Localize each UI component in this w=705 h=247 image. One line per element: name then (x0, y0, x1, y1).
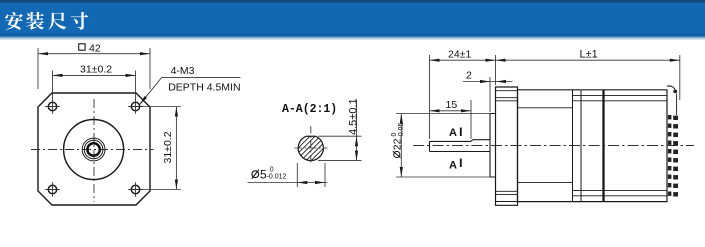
svg-text:L±1: L±1 (580, 48, 598, 60)
rear connector top tab (667, 86, 677, 115)
svg-text:2: 2 (466, 70, 472, 82)
side view centerline (413, 145, 694, 147)
dimension 2 extension line (489, 77, 491, 112)
header fade strip (0, 37, 705, 39)
header title char 寸 (71, 12, 89, 30)
front view horizontal centerline (31, 149, 154, 151)
mounting hole bottom-right (128, 182, 143, 197)
section crosshair horizontal (295, 147, 328, 149)
shaft outline (430, 140, 491, 152)
section crosshair vertical (310, 126, 312, 165)
shaft section hatching (268, 128, 354, 168)
svg-text:31±0.2: 31±0.2 (162, 131, 174, 163)
dimension 31 top extension lines (53, 71, 136, 101)
dimension 2 line (463, 80, 513, 83)
svg-text:A: A (449, 127, 457, 139)
section cut mark A lower (449, 159, 461, 172)
header main blue bar (0, 3, 705, 34)
dimension 15 extension line (470, 100, 472, 139)
svg-text:4.5±0.1: 4.5±0.1 (347, 98, 359, 135)
flange plate chamfer lines (496, 91, 518, 202)
bearing inner ring (84, 140, 103, 159)
svg-text:A-A(2:1): A-A(2:1) (282, 103, 337, 116)
svg-text:31±0.2: 31±0.2 (80, 64, 112, 76)
dimension 31 top line (53, 74, 136, 77)
dimension dia22 extension lines (396, 114, 490, 178)
4-M3 leader line (140, 77, 241, 104)
svg-text:15: 15 (446, 99, 458, 111)
svg-text:42: 42 (89, 43, 101, 55)
svg-text:-0.012: -0.012 (267, 174, 287, 181)
rear connector pin teeth (668, 115, 678, 197)
dimension square-42 line (38, 52, 150, 55)
mounting hole top-left (45, 99, 60, 114)
front view flange outline (38, 93, 150, 205)
section cut mark A upper (449, 127, 461, 139)
pilot boss side profile (490, 114, 496, 178)
shaft section D outline (298, 136, 323, 160)
header bar (0, 0, 705, 40)
header top navy strip (0, 0, 705, 3)
flange plate block (496, 87, 518, 205)
bearing outer ring (82, 138, 105, 161)
stator stack inner lines (518, 108, 573, 183)
dimension 24 line (430, 59, 496, 62)
dimension 31 right extension lines (141, 107, 181, 190)
header title char 安 (5, 12, 23, 30)
stator stack right edge (572, 90, 574, 202)
svg-text:A: A (449, 159, 457, 171)
svg-text:-0.05: -0.05 (398, 122, 405, 138)
dimension square-42 extension lines (38, 48, 150, 89)
motor body outline (518, 90, 668, 202)
svg-text:DEPTH 4.5MIN: DEPTH 4.5MIN (168, 81, 240, 93)
svg-text:4-M3: 4-M3 (171, 65, 195, 77)
dimension dia22 text (rotated) (391, 122, 405, 157)
pilot boss circle (64, 120, 124, 180)
rear cap joint thick line (602, 90, 604, 202)
mounting hole top-right (128, 99, 143, 114)
dimension 24 and L extension lines (430, 55, 680, 139)
header title char 装 (26, 12, 44, 30)
dimension 31 right line (175, 107, 178, 190)
header bottom darker strip (0, 34, 705, 37)
rear housing left edge (580, 90, 582, 202)
dimension 4.5 line (355, 100, 358, 161)
svg-text:0: 0 (270, 166, 274, 173)
dimension dia5 extension lines (297, 163, 325, 187)
dimension L line (496, 59, 680, 62)
svg-text:0: 0 (391, 133, 398, 137)
svg-text:22: 22 (392, 138, 404, 150)
dimension square-42 text (79, 43, 101, 55)
front view vertical centerline (93, 99, 95, 202)
dimension 15 line (430, 109, 472, 112)
dimension dia5 line (248, 181, 328, 184)
header title char 尺 (48, 12, 66, 29)
rear housing chamfer lines (573, 96, 668, 196)
mounting hole bottom-left (45, 182, 60, 197)
svg-text:24±1: 24±1 (448, 48, 471, 60)
dimension dia5 symbol (252, 170, 259, 179)
dimension 4.5 extension lines (318, 136, 362, 160)
dimension dia22 line (400, 114, 403, 178)
shaft bore circle (87, 143, 99, 155)
